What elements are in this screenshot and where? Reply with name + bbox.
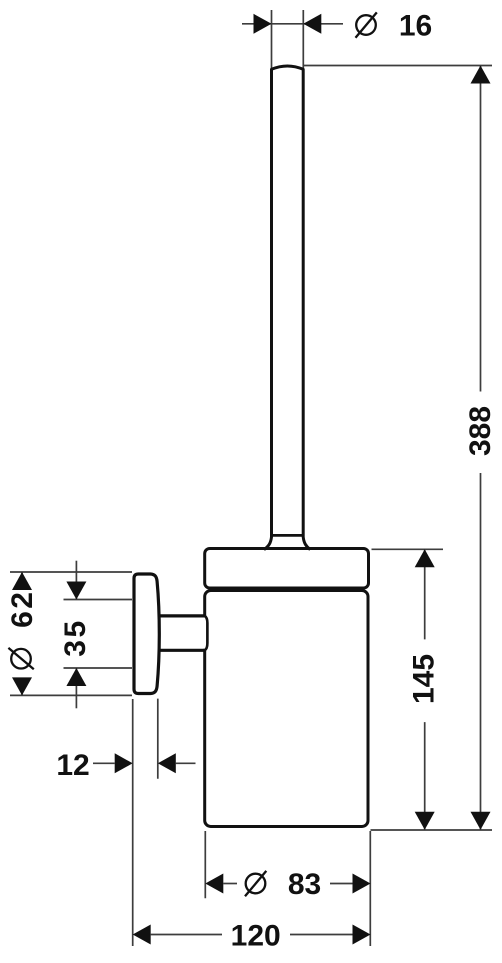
wall plate [134, 574, 159, 694]
arm top edge [156, 614, 205, 617]
dimension line 35 (outside leaders) [75, 561, 77, 709]
extension lines dia16 [272, 10, 304, 68]
arrow dia83 right [353, 874, 371, 894]
svg-text:83: 83 [288, 868, 321, 901]
arrow 12 right [158, 753, 176, 773]
extension line cup right (for dia83/120) [369, 831, 371, 946]
arrow 120 left [133, 925, 151, 945]
arrow 145 top [415, 549, 435, 567]
svg-text:145: 145 [408, 654, 441, 704]
lid of holder [205, 549, 369, 589]
extension line rod top (for 388) [304, 65, 493, 67]
rod joint line [270, 534, 304, 537]
svg-text:120: 120 [231, 920, 281, 953]
collar jog at cup junction [205, 616, 208, 650]
extension line wall plate right (for 12) [157, 699, 159, 779]
arrow dia83 left [205, 874, 223, 894]
extension line wall plate left (for 12/120) [132, 699, 134, 946]
diameter symbol for 83 [245, 871, 266, 896]
arrow 35 top [66, 582, 86, 600]
extension line cup bottom (for 145/388) [371, 829, 493, 831]
label dia62 [6, 590, 39, 670]
arrow 145 bottom [415, 812, 435, 830]
svg-text:12: 12 [56, 749, 89, 782]
dimension line dia83 [223, 883, 352, 885]
arrow dia16 right [303, 14, 321, 34]
svg-text:16: 16 [399, 10, 432, 43]
arrow 35 bottom [66, 668, 86, 686]
arrow 120 right [353, 925, 371, 945]
dimension line 145 [424, 549, 426, 829]
arrow dia62 top [12, 572, 32, 590]
brush handle rod [264, 66, 310, 550]
arm bottom edge [156, 649, 205, 652]
extension line lid top (for 145) [372, 548, 444, 550]
dimension line 388 [480, 66, 482, 830]
dimension line dia16 [242, 23, 343, 25]
arm (white fill covers cup edge at junction) [158, 618, 206, 649]
extension lines dia62 [10, 572, 132, 695]
svg-text:35: 35 [59, 618, 92, 656]
arrow dia16 left [254, 14, 272, 34]
svg-text:62: 62 [6, 590, 39, 628]
dimension line 120 [151, 934, 353, 936]
arrow 12 left [115, 753, 133, 773]
extension lines 35 [64, 600, 133, 669]
dimension line 12 [93, 762, 196, 764]
arrow 388 top [471, 66, 491, 84]
extension line cup left (for dia83) [204, 831, 206, 898]
arrow 388 bottom [471, 812, 491, 830]
dimension line dia62 [21, 572, 23, 695]
cup body [205, 591, 368, 827]
arrow dia62 bottom [12, 677, 32, 695]
diameter symbol for 16 [356, 12, 377, 37]
svg-text:388: 388 [464, 406, 497, 456]
